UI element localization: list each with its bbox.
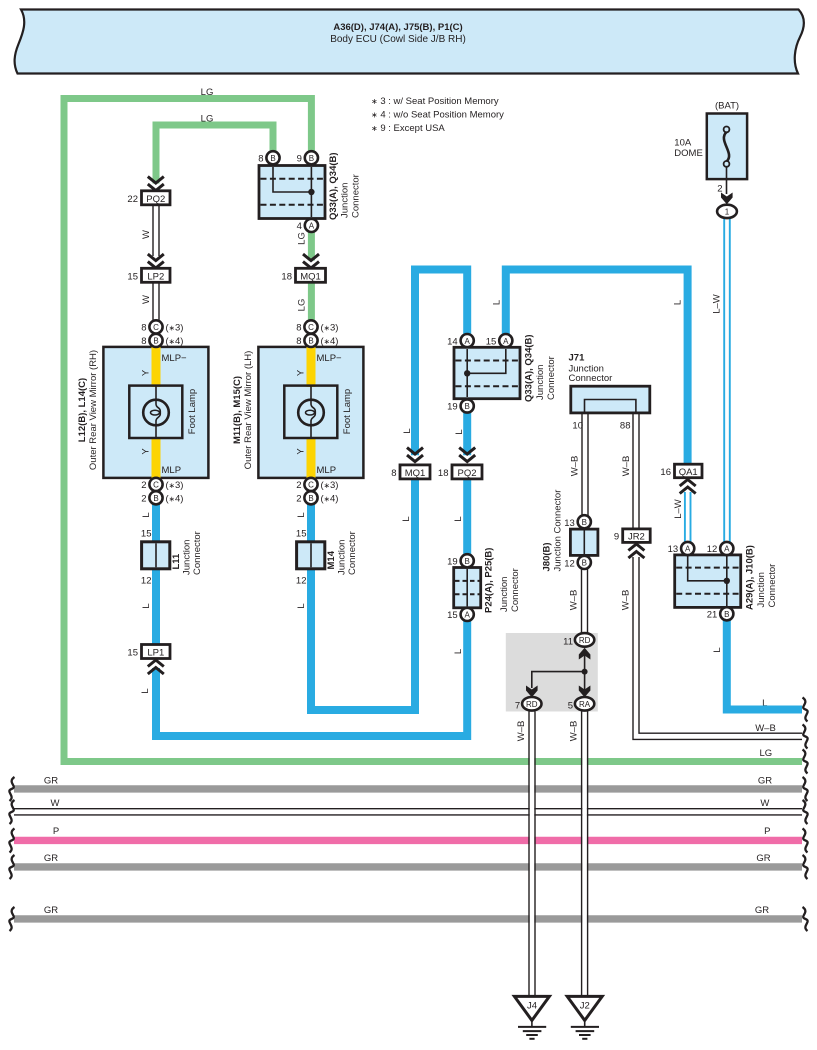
wire W-B 7(RD) down to ground J4: [530, 711, 535, 996]
ground J2: [567, 996, 602, 1038]
wire LG from MQ1 to mirror 8(C): [308, 282, 315, 321]
squiggle right GR2: [803, 855, 808, 879]
svg-text:Junction Connector: Junction Connector: [553, 490, 564, 572]
wire L-W QA1 to 13(A): [685, 492, 691, 543]
svg-text:RD: RD: [526, 700, 538, 709]
junction connector L11: [141, 529, 203, 587]
mirror RH top pin 8 (B) (*4): [141, 334, 183, 347]
connector box 16 QA1 with chevron up: [660, 464, 702, 493]
svg-text:L: L: [141, 603, 152, 608]
svg-text:Foot Lamp: Foot Lamp: [342, 389, 353, 434]
svg-text:L: L: [492, 300, 503, 305]
svg-text:15: 15: [486, 336, 497, 347]
svg-text:W: W: [141, 295, 152, 304]
legend note: [371, 96, 504, 134]
bus W outlined: [14, 808, 802, 810]
svg-text:10: 10: [572, 421, 583, 432]
svg-text:W–B: W–B: [621, 456, 632, 477]
svg-text:(∗3): (∗3): [166, 323, 184, 334]
wire L blue mirror LH bottom to M14: [307, 503, 315, 543]
svg-text:1: 1: [725, 208, 730, 217]
svg-text:B: B: [309, 154, 314, 163]
bus GR 2: [14, 863, 802, 870]
svg-text:M11(B), M15(C): M11(B), M15(C): [232, 376, 243, 444]
svg-text:L11: L11: [171, 553, 182, 570]
svg-text:12: 12: [141, 576, 152, 587]
svg-text:15: 15: [447, 610, 458, 621]
svg-text:L12(B), L14(C): L12(B), L14(C): [77, 378, 88, 442]
svg-text:A: A: [724, 545, 730, 554]
svg-text:MLP−: MLP−: [317, 353, 343, 364]
svg-text:Junction: Junction: [340, 183, 351, 218]
svg-text:Junction: Junction: [337, 540, 348, 575]
svg-text:J2: J2: [580, 1001, 590, 1012]
svg-text:A: A: [309, 222, 315, 231]
lamp bulb RH: [155, 386, 157, 400]
svg-text:2: 2: [141, 480, 146, 491]
svg-text:Y: Y: [141, 448, 152, 455]
lamp bulb LH: [310, 386, 312, 400]
svg-text:L: L: [454, 429, 465, 434]
svg-text:L–W: L–W: [712, 294, 723, 314]
banner Body ECU (Cowl Side J/B RH): [15, 10, 804, 74]
svg-text:B: B: [465, 557, 470, 566]
svg-text:PQ2: PQ2: [146, 194, 165, 205]
bus P pink: [14, 837, 802, 844]
svg-text:W–B: W–B: [755, 723, 776, 734]
squiggle right GR3: [803, 907, 808, 931]
svg-text:13: 13: [668, 544, 679, 555]
wire LG green outer: vertical from 9(B), top run, down left side, LG bus to right edge: [64, 99, 802, 762]
svg-text:12: 12: [564, 559, 575, 570]
svg-text:13: 13: [564, 518, 575, 529]
squiggle right W: [803, 800, 808, 824]
connector box 8 MQ1 with chevron: [391, 448, 430, 479]
svg-text:9: 9: [297, 154, 302, 165]
junction connector P24(A), P25(B): [447, 548, 521, 621]
svg-text:GR: GR: [44, 776, 58, 787]
svg-text:B: B: [724, 610, 729, 619]
svg-text:L: L: [453, 516, 464, 521]
svg-text:Junction: Junction: [499, 577, 510, 612]
svg-text:∗ 9 : Except USA: ∗ 9 : Except USA: [371, 123, 445, 134]
svg-text:19: 19: [447, 556, 458, 567]
svg-text:2: 2: [141, 494, 146, 505]
wire LG from 4(A) to chevron above MQ1: [308, 231, 315, 261]
svg-text:Connector: Connector: [351, 174, 362, 218]
splice node dot: [582, 669, 588, 675]
svg-text:8: 8: [296, 323, 301, 334]
svg-text:W–B: W–B: [569, 590, 580, 611]
svg-text:18: 18: [438, 468, 449, 479]
connector box 9 JR2 with chevron up: [614, 529, 650, 558]
svg-text:B: B: [270, 154, 275, 163]
svg-text:A: A: [503, 337, 509, 346]
svg-text:MLP−: MLP−: [162, 353, 188, 364]
svg-text:J80(B): J80(B): [542, 542, 553, 571]
svg-text:L: L: [402, 428, 413, 433]
svg-text:Connector: Connector: [546, 356, 557, 400]
svg-text:15: 15: [127, 648, 138, 659]
svg-text:14: 14: [447, 336, 458, 347]
svg-text:W–B: W–B: [516, 721, 527, 742]
arrow down into 5(RA): [579, 686, 591, 698]
svg-text:8: 8: [141, 323, 146, 334]
svg-text:22: 22: [127, 194, 138, 205]
svg-text:2: 2: [296, 480, 301, 491]
junction connector Q33(A), Q34(B) second: [447, 334, 557, 413]
svg-text:Connector: Connector: [192, 531, 203, 575]
svg-text:(∗4): (∗4): [166, 336, 184, 347]
svg-text:Foot Lamp: Foot Lamp: [187, 389, 198, 434]
svg-text:4: 4: [297, 221, 302, 232]
pin 4 (A): [305, 219, 318, 232]
junction connector Q33(A), Q34(B) first: [258, 151, 361, 232]
svg-text:RD: RD: [579, 636, 591, 645]
svg-text:L: L: [296, 603, 307, 608]
connector box 15 LP2 with chevron: [127, 254, 170, 282]
svg-text:Junction: Junction: [182, 540, 193, 575]
wire W-B JR2 down and right to W-B bus right edge: [636, 557, 802, 736]
svg-text:A29(A), J10(B): A29(A), J10(B): [745, 545, 756, 610]
squiggle right P: [803, 829, 808, 853]
wire L blue L11 to LP1: [152, 568, 160, 646]
wire L blue 21(B) down to L bus right edge: [727, 619, 802, 710]
squiggle right GR1: [803, 777, 808, 801]
wire L blue PQ2 to P24 19(B): [463, 479, 471, 555]
svg-text:18: 18: [281, 271, 292, 282]
svg-text:Q33(A), Q34(B): Q33(A), Q34(B): [328, 152, 339, 220]
svg-text:15: 15: [296, 529, 307, 540]
svg-text:MLP: MLP: [317, 465, 337, 476]
svg-text:19: 19: [447, 402, 458, 413]
splice wires: [584, 655, 586, 697]
svg-text:Y: Y: [296, 448, 307, 455]
squiggle left GR2: [9, 855, 14, 879]
svg-text:L: L: [712, 647, 723, 652]
svg-text:Q33(A), Q34(B): Q33(A), Q34(B): [524, 334, 535, 402]
junction connector J80(B): [542, 490, 598, 572]
svg-text:DOME: DOME: [674, 148, 703, 159]
svg-text:7: 7: [515, 700, 520, 711]
svg-text:L: L: [141, 512, 152, 517]
wire L blue MQ1 up over to 14(A): [415, 270, 467, 456]
wire W-B J71 pin88 down to JR2: [633, 413, 639, 530]
svg-text:W–B: W–B: [570, 456, 581, 477]
svg-text:M14: M14: [326, 550, 337, 569]
svg-text:12: 12: [707, 544, 718, 555]
svg-text:W: W: [760, 798, 769, 809]
svg-text:J4: J4: [527, 1001, 537, 1012]
svg-text:21: 21: [707, 609, 718, 620]
svg-text:LG: LG: [201, 87, 214, 98]
svg-text:W–B: W–B: [569, 721, 580, 742]
squiggle left W: [9, 800, 14, 824]
svg-text:88: 88: [620, 421, 631, 432]
terminal 11 (RD): [575, 633, 594, 647]
svg-text:L: L: [296, 512, 307, 517]
svg-text:8: 8: [141, 336, 146, 347]
svg-text:JR2: JR2: [628, 532, 645, 543]
pin 9 (B): [305, 151, 318, 164]
svg-text:B: B: [153, 337, 158, 346]
svg-text:16: 16: [660, 467, 671, 478]
svg-text:Body ECU (Cowl Side J/B RH): Body ECU (Cowl Side J/B RH): [330, 34, 466, 45]
wire L blue 19(B) to PQ2 chevron: [463, 412, 471, 455]
svg-text:B: B: [582, 559, 587, 568]
outer rear view mirror LH box: [232, 346, 363, 479]
svg-text:12: 12: [296, 576, 307, 587]
svg-text:Connector: Connector: [569, 373, 613, 384]
terminal 7 (RD): [522, 697, 541, 711]
svg-text:GR: GR: [44, 853, 58, 864]
mirror RH bottom pin 2 (C) (*3): [141, 478, 183, 491]
mirror RH bottom pin 2 (B) (*4): [141, 491, 183, 504]
svg-text:LG: LG: [297, 232, 308, 245]
connector box 18 MQ1 with chevron: [281, 254, 325, 282]
mirror RH top pin 8 (C) (*3): [141, 320, 183, 333]
pin 12 (A): [720, 542, 733, 555]
wire LG green inner: from chevron above PQ2 up, over, down to 8(B): [156, 125, 273, 184]
arrow down into 7(RD): [526, 686, 538, 698]
svg-text:MLP: MLP: [162, 465, 182, 476]
svg-text:B: B: [582, 518, 587, 527]
junction connector J71: [569, 353, 650, 432]
svg-text:GR: GR: [758, 776, 772, 787]
squiggle right L bus: [803, 698, 808, 722]
wire W-B J71 pin10 down to 13(B): [582, 413, 588, 516]
svg-text:(∗4): (∗4): [321, 336, 339, 347]
foot lamp inner box LH: [284, 386, 337, 438]
wire Y yellow mirror LH upper: [307, 346, 316, 387]
svg-text:GR: GR: [756, 853, 770, 864]
svg-text:Outer Rear View Mirror (RH): Outer Rear View Mirror (RH): [88, 350, 99, 470]
connector box 18 PQ2 with chevron: [438, 448, 482, 479]
svg-text:Y: Y: [296, 369, 307, 376]
svg-text:RA: RA: [579, 700, 591, 709]
wire Y yellow mirror RH lower: [152, 437, 161, 479]
squiggle left GR3: [9, 907, 14, 931]
svg-text:W: W: [141, 230, 152, 239]
wire Y yellow mirror RH upper: [152, 346, 161, 387]
svg-text:Outer Rear View Mirror (LH): Outer Rear View Mirror (LH): [243, 351, 254, 470]
svg-text:Connector: Connector: [767, 564, 778, 608]
ground J4: [514, 996, 549, 1038]
svg-text:L: L: [401, 516, 412, 521]
junction connector A29(A), J10(B): [668, 542, 778, 621]
svg-text:8: 8: [391, 468, 396, 479]
pin 8 (B): [266, 151, 279, 164]
svg-text:L: L: [673, 300, 684, 305]
wire W-B J80 12(B) down to 11(RD): [582, 569, 588, 634]
svg-text:GR: GR: [44, 905, 58, 916]
mirror LH bottom pin 2 (C) (*3): [296, 478, 338, 491]
outer rear view mirror RH box: [77, 346, 208, 479]
squiggle right W-B bus: [803, 725, 808, 749]
squiggle left P: [9, 829, 14, 853]
wire W-B 5(RA) down to ground J2: [582, 711, 587, 996]
svg-text:P: P: [53, 826, 59, 837]
svg-text:L: L: [140, 688, 151, 693]
svg-text:Connector: Connector: [510, 568, 521, 612]
svg-text:A: A: [465, 611, 471, 620]
svg-text:L: L: [453, 649, 464, 654]
svg-text:C: C: [308, 481, 314, 490]
pin 21 (B): [720, 607, 733, 620]
pin 13 (A): [681, 542, 694, 555]
terminal 5 (RA): [575, 697, 594, 711]
svg-text:A: A: [465, 337, 471, 346]
svg-text:B: B: [465, 402, 470, 411]
svg-text:Connector: Connector: [347, 531, 358, 575]
svg-text:PQ2: PQ2: [457, 468, 476, 479]
wire L blue M14 down, right, up to MQ1: [311, 479, 415, 710]
svg-text:(∗4): (∗4): [321, 494, 339, 505]
pin 14 (A): [461, 334, 474, 347]
svg-text:P: P: [764, 826, 770, 837]
svg-text:(∗4): (∗4): [166, 494, 184, 505]
svg-text:5: 5: [568, 700, 573, 711]
wire L blue LP1 down, right, up to P24 15(A): [156, 620, 467, 736]
svg-text:Y: Y: [141, 369, 152, 376]
svg-text:LG: LG: [297, 299, 308, 312]
wire L blue 15(A) up over to QA1: [506, 270, 688, 466]
mirror LH bottom pin 2 (B) (*4): [296, 491, 338, 504]
fuse 10A DOME: [674, 101, 747, 219]
svg-text:C: C: [153, 481, 159, 490]
svg-text:C: C: [153, 323, 159, 332]
wire L-W fuse to 12(A): [724, 218, 730, 543]
svg-text:LP2: LP2: [147, 271, 164, 282]
pin 19 (B) of P24: [461, 554, 474, 567]
terminal ellipse 1: [717, 205, 737, 218]
svg-text:GR: GR: [755, 905, 769, 916]
pin 15 (A) of P24: [461, 608, 474, 621]
foot lamp inner box RH: [129, 386, 182, 438]
connector box 22 PQ2 with chevron: [127, 177, 170, 205]
svg-text:∗ 3 : w/ Seat Position Memory: ∗ 3 : w/ Seat Position Memory: [371, 96, 499, 107]
svg-text:(BAT): (BAT): [715, 101, 739, 112]
svg-text:LG: LG: [759, 748, 772, 759]
svg-text:LP1: LP1: [147, 648, 164, 659]
svg-text:(∗3): (∗3): [321, 480, 339, 491]
svg-text:W–B: W–B: [621, 590, 632, 611]
wire L blue mirror RH bottom to L11: [152, 503, 160, 543]
svg-text:Junction: Junction: [535, 365, 546, 400]
svg-text:15: 15: [141, 529, 152, 540]
svg-text:2: 2: [717, 184, 722, 195]
mirror LH top pin 8 (B) (*4): [296, 334, 338, 347]
svg-text:LG: LG: [201, 114, 214, 125]
svg-text:MQ1: MQ1: [405, 468, 426, 479]
bus GR 3: [14, 915, 802, 922]
svg-text:15: 15: [127, 271, 138, 282]
squiggle right LG bus: [803, 750, 808, 774]
svg-text:W: W: [51, 798, 60, 809]
pin 12 (B) of J80: [578, 556, 591, 569]
wire W white LP2 to 8(C): [153, 282, 159, 321]
svg-text:B: B: [153, 494, 158, 503]
wire W white left column PQ2 to LP2: [153, 205, 159, 257]
svg-text:P24(A), P25(B): P24(A), P25(B): [484, 548, 495, 613]
svg-text:8: 8: [258, 154, 263, 165]
svg-text:QA1: QA1: [679, 467, 698, 478]
svg-text:10A: 10A: [674, 138, 692, 149]
bus GR 1: [14, 785, 802, 792]
svg-text:8: 8: [296, 336, 301, 347]
arrow up into 11(RD): [579, 648, 591, 660]
junction connector M14: [296, 529, 358, 587]
wire Y yellow mirror LH lower: [307, 437, 316, 479]
svg-text:11: 11: [563, 636, 573, 647]
mirror LH top pin 8 (C) (*3): [296, 320, 338, 333]
pin 13 (B) of J80: [578, 515, 591, 528]
pin 19 (B): [461, 399, 474, 412]
pin 15 (A): [499, 334, 512, 347]
svg-text:A: A: [685, 545, 691, 554]
svg-text:Junction: Junction: [756, 572, 767, 607]
svg-text:9: 9: [614, 532, 619, 543]
svg-text:MQ1: MQ1: [300, 271, 321, 282]
svg-text:B: B: [308, 337, 313, 346]
svg-text:B: B: [308, 494, 313, 503]
squiggle left GR1: [9, 777, 14, 801]
svg-text:(∗3): (∗3): [166, 480, 184, 491]
splice shaded box: [506, 633, 598, 712]
svg-text:A36(D), J74(A), J75(B), P1(C): A36(D), J74(A), J75(B), P1(C): [333, 22, 462, 33]
connector box 15 LP1 with chevron up: [127, 645, 170, 675]
svg-text:∗ 4 : w/o Seat Position Memory: ∗ 4 : w/o Seat Position Memory: [371, 110, 504, 121]
svg-text:C: C: [308, 323, 314, 332]
svg-text:L–W: L–W: [673, 499, 684, 519]
svg-text:(∗3): (∗3): [321, 323, 339, 334]
svg-text:2: 2: [296, 494, 301, 505]
arrow down into circle 1: [721, 193, 733, 205]
svg-text:J71: J71: [569, 353, 586, 364]
